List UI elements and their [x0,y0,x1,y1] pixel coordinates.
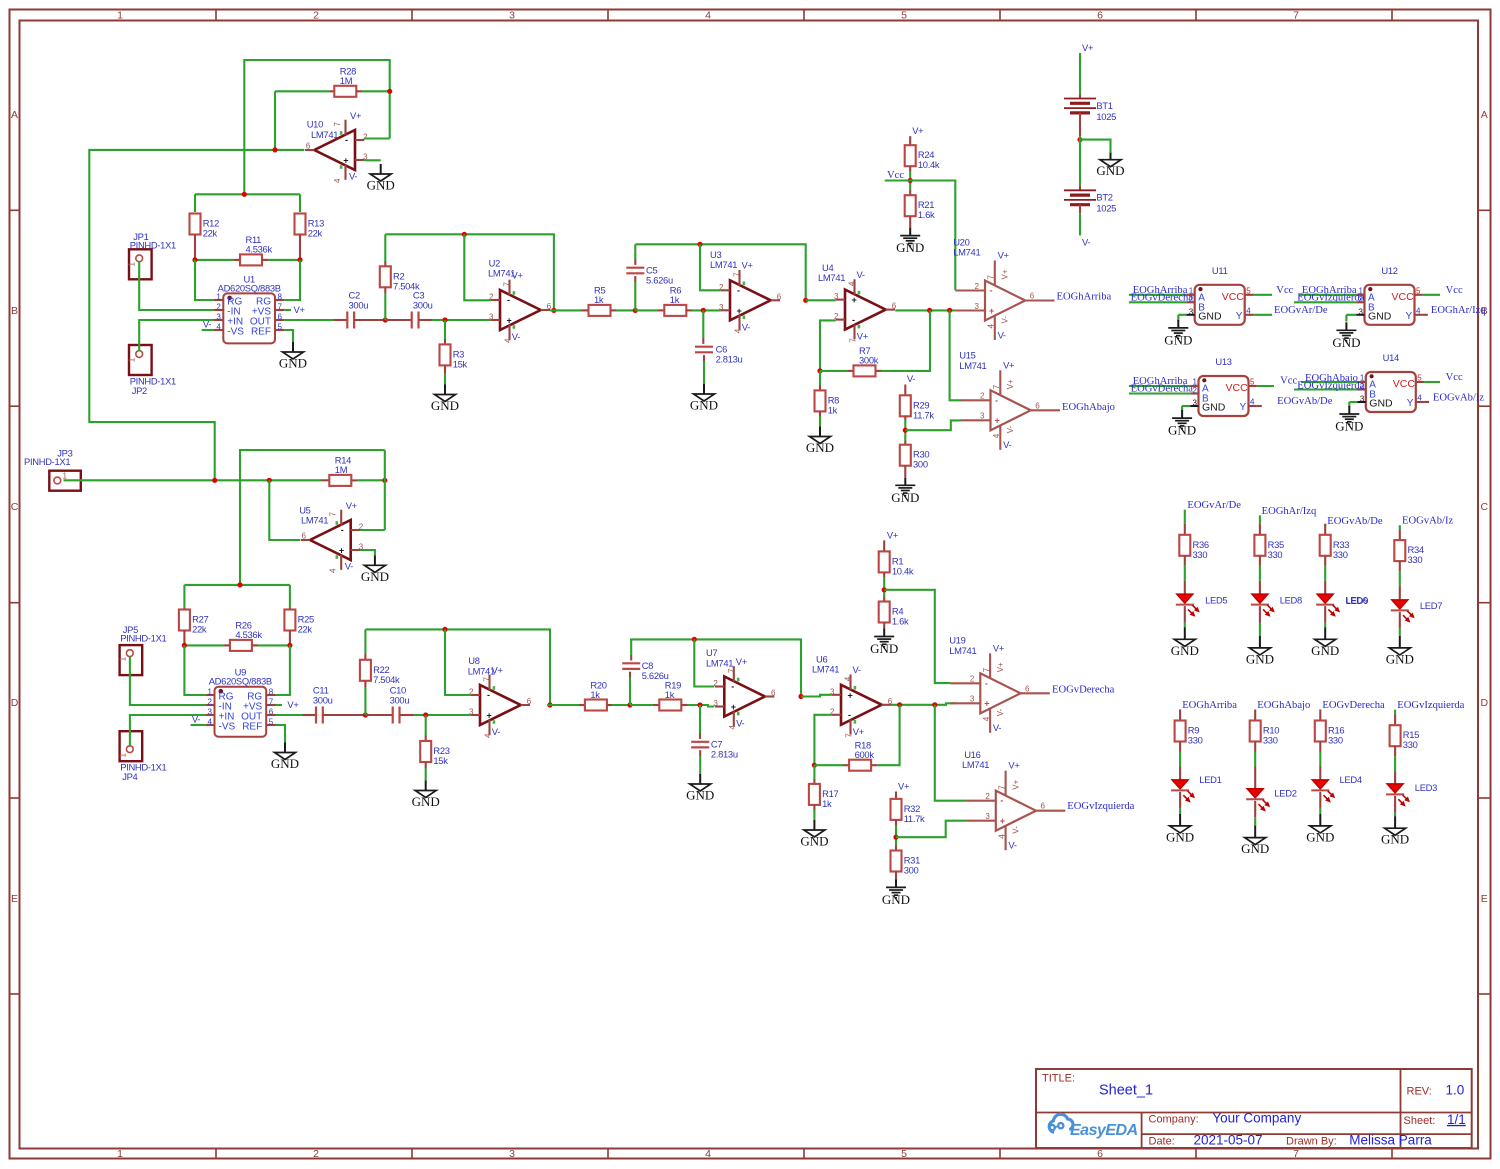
svg-text:4: 4 [844,676,853,681]
svg-text:2: 2 [985,792,990,801]
svg-text:-: - [341,525,344,535]
svg-text:1.6k: 1.6k [892,616,909,627]
svg-text:LM741: LM741 [468,665,495,676]
svg-text:7: 7 [733,272,742,277]
svg-text:2: 2 [713,679,718,688]
svg-text:6: 6 [892,302,897,311]
svg-text:6: 6 [1097,1148,1103,1160]
svg-text:6: 6 [1030,292,1035,301]
svg-text:4.536k: 4.536k [235,629,262,640]
svg-text:E: E [1481,893,1488,905]
svg-text:6: 6 [269,708,274,717]
svg-text:5: 5 [1417,374,1422,383]
svg-text:7: 7 [1293,1148,1299,1160]
svg-text:3: 3 [469,708,474,717]
svg-text:EOGvDerecha: EOGvDerecha [1052,685,1115,696]
svg-text:REF: REF [251,326,271,337]
svg-text:V+: V+ [1001,269,1010,279]
svg-text:-: - [737,286,740,296]
svg-text:Date:: Date: [1149,1135,1175,1147]
svg-text:1: 1 [216,293,221,302]
svg-text:3: 3 [830,687,835,696]
svg-text:AD620SQ/883B: AD620SQ/883B [218,282,281,293]
svg-text:3: 3 [489,313,494,322]
svg-text:BT2: BT2 [1096,192,1112,203]
svg-text:LM741: LM741 [812,664,839,675]
svg-text:1025: 1025 [1096,111,1116,122]
svg-text:3: 3 [980,412,985,421]
svg-text:D: D [1481,697,1489,709]
svg-text:GND: GND [1164,332,1192,347]
svg-text:GND: GND [1386,651,1414,666]
svg-text:5: 5 [1416,286,1421,295]
svg-text:330: 330 [1403,739,1418,750]
svg-text:7: 7 [727,668,736,673]
svg-text:EOGvDerecha: EOGvDerecha [1322,700,1385,711]
svg-text:Y: Y [1236,311,1243,322]
svg-text:330: 330 [1263,735,1278,746]
svg-text:V-: V- [192,714,200,725]
svg-text:C: C [1481,501,1489,513]
svg-text:VCC: VCC [1393,378,1416,390]
svg-text:Y: Y [1407,398,1414,409]
svg-text:+: + [507,316,512,326]
svg-text:U11: U11 [1212,265,1228,276]
svg-text:330: 330 [1408,554,1423,565]
svg-text:6: 6 [302,532,307,541]
svg-text:V-: V- [349,171,357,182]
svg-text:GND: GND [806,440,834,455]
svg-text:1: 1 [128,262,137,267]
svg-text:4: 4 [728,725,737,730]
svg-text:Y: Y [1240,402,1247,413]
svg-text:4: 4 [992,433,1001,438]
svg-text:4: 4 [216,323,221,332]
svg-text:V+: V+ [887,529,899,540]
svg-text:B: B [11,305,18,317]
svg-text:3: 3 [1193,399,1198,408]
svg-text:7: 7 [982,667,991,672]
svg-text:4: 4 [1250,398,1255,407]
svg-text:GND: GND [690,398,718,413]
svg-text:V+: V+ [857,331,869,342]
svg-text:3: 3 [208,708,213,717]
svg-text:7: 7 [333,122,342,127]
svg-text:+: + [343,156,348,166]
svg-text:EOGhAbajo: EOGhAbajo [1257,700,1310,711]
svg-text:5: 5 [1250,378,1255,387]
svg-text:-: - [345,135,348,145]
svg-text:GND: GND [271,756,299,771]
svg-text:1: 1 [208,688,213,697]
svg-text:1: 1 [118,752,127,757]
svg-text:-: - [990,286,993,296]
svg-text:LED1: LED1 [1199,774,1221,785]
svg-text:3: 3 [1189,307,1194,316]
svg-text:V-: V- [996,708,1005,716]
svg-text:V-: V- [998,329,1006,340]
svg-text:-: - [995,395,998,405]
svg-text:GND: GND [1202,402,1226,414]
svg-text:2.813u: 2.813u [711,749,738,760]
svg-text:10.4k: 10.4k [892,565,914,576]
svg-text:GND: GND [1332,335,1360,350]
svg-text:1k: 1k [822,798,832,809]
svg-text:330: 330 [1193,549,1208,560]
svg-text:10.4k: 10.4k [918,159,940,170]
svg-text:5.626u: 5.626u [646,275,673,286]
svg-text:+: + [984,699,989,709]
svg-text:4: 4 [734,328,743,333]
svg-text:2.813u: 2.813u [716,354,743,365]
svg-text:4: 4 [1416,306,1421,315]
svg-text:22k: 22k [298,624,313,635]
svg-text:V+: V+ [898,780,910,791]
svg-text:2: 2 [975,282,980,291]
svg-text:2: 2 [313,1148,319,1160]
svg-text:7.504k: 7.504k [393,280,420,291]
svg-text:22k: 22k [192,624,207,635]
svg-text:1: 1 [117,10,123,22]
svg-text:4: 4 [705,1148,711,1160]
svg-text:GND: GND [1241,841,1269,856]
svg-text:+: + [989,306,994,316]
svg-text:330: 330 [1333,549,1348,560]
svg-text:V+: V+ [912,125,924,136]
svg-text:U13: U13 [1215,356,1231,367]
svg-text:4.536k: 4.536k [246,244,273,255]
svg-text:E: E [11,893,18,905]
svg-text:V-: V- [853,664,861,675]
svg-text:1: 1 [63,472,68,481]
svg-text:2: 2 [970,675,975,684]
svg-text:LED2: LED2 [1274,788,1296,799]
svg-text:1k: 1k [590,689,600,700]
svg-text:7: 7 [987,275,996,280]
svg-text:EOGhAr/Izq: EOGhAr/Izq [1431,305,1486,316]
svg-text:LM741: LM741 [953,247,980,258]
svg-text:4: 4 [705,10,711,22]
svg-text:Your Company: Your Company [1212,1111,1301,1126]
svg-text:PINHD-1X1: PINHD-1X1 [24,456,70,467]
svg-text:GND: GND [1246,651,1274,666]
svg-text:3: 3 [216,313,221,322]
svg-text:300u: 300u [349,300,369,311]
svg-text:EOGhAbajo: EOGhAbajo [1062,402,1115,413]
svg-text:GND: GND [1166,829,1194,844]
svg-text:+: + [1000,816,1005,826]
svg-text:1: 1 [117,1148,123,1160]
svg-text:V+: V+ [294,304,306,315]
svg-text:4: 4 [1246,306,1251,315]
svg-text:BT1: BT1 [1096,100,1112,111]
svg-text:Company:: Company: [1149,1114,1199,1126]
svg-text:Sheet:: Sheet: [1404,1115,1436,1127]
svg-text:V-: V- [1006,425,1015,433]
svg-text:6: 6 [278,313,283,322]
svg-text:GND: GND [882,892,910,907]
svg-text:Y: Y [1406,311,1413,322]
svg-text:GND: GND [891,490,919,505]
svg-text:4: 4 [333,178,342,183]
svg-text:8: 8 [278,293,283,302]
svg-text:EOGhArriba: EOGhArriba [1182,700,1237,711]
svg-text:3: 3 [509,1148,515,1160]
svg-text:600k: 600k [855,749,875,760]
svg-text:VCC: VCC [1226,382,1249,394]
svg-text:22k: 22k [203,228,218,239]
svg-text:1: 1 [128,357,137,362]
svg-text:300k: 300k [859,355,879,366]
svg-text:U12: U12 [1381,265,1397,276]
svg-text:4: 4 [208,718,213,727]
svg-text:V-: V- [1082,237,1090,248]
svg-text:4: 4 [987,324,996,329]
svg-text:V-: V- [203,319,211,330]
svg-text:11.7k: 11.7k [913,409,934,420]
svg-text:7: 7 [329,512,338,517]
svg-text:+: + [731,702,736,712]
svg-text:V+: V+ [346,500,358,511]
svg-text:LM741: LM741 [818,272,845,283]
svg-text:1M: 1M [340,75,353,86]
svg-text:AD620SQ/883B: AD620SQ/883B [209,676,272,687]
svg-text:GND: GND [1171,643,1199,658]
svg-text:4: 4 [1417,394,1422,403]
svg-text:LED9: LED9 [1346,595,1368,606]
svg-text:LM741: LM741 [301,515,328,526]
svg-text:3: 3 [1359,307,1364,316]
svg-text:330: 330 [1268,549,1283,560]
svg-text:GND: GND [279,356,307,371]
svg-text:300u: 300u [390,695,410,706]
svg-text:1k: 1k [594,294,604,305]
svg-text:GND: GND [412,794,440,809]
svg-text:5: 5 [901,10,907,22]
svg-text:V+: V+ [993,642,1005,653]
svg-text:+: + [995,416,1000,426]
svg-text:V+: V+ [287,699,299,710]
svg-text:3: 3 [975,302,980,311]
svg-text:EOGhAr/Izq: EOGhAr/Izq [1262,506,1317,517]
svg-text:7: 7 [992,384,1001,389]
svg-text:EOGvAb/De: EOGvAb/De [1277,396,1333,407]
svg-text:-: - [731,682,734,692]
svg-text:6: 6 [1025,684,1030,693]
svg-text:V-: V- [907,373,915,384]
svg-text:V+: V+ [1006,379,1015,389]
svg-text:LED8: LED8 [1280,595,1302,606]
svg-text:V+: V+ [350,110,362,121]
svg-text:2: 2 [1193,386,1198,395]
svg-text:C: C [11,501,19,513]
svg-text:5: 5 [278,323,283,332]
svg-text:Sheet_1: Sheet_1 [1099,1083,1153,1099]
svg-text:7: 7 [483,677,492,682]
svg-text:LM741: LM741 [949,645,976,656]
svg-text:V-: V- [1003,439,1011,450]
svg-text:2: 2 [359,523,364,532]
svg-text:6: 6 [771,689,776,698]
svg-text:11.7k: 11.7k [904,813,925,824]
svg-text:Vcc: Vcc [1280,376,1297,387]
svg-text:5.626u: 5.626u [642,670,669,681]
svg-text:6: 6 [1041,802,1046,811]
svg-text:-: - [507,295,510,305]
svg-text:V+: V+ [1082,42,1094,53]
svg-text:-: - [985,678,988,688]
svg-text:GND: GND [1335,419,1363,434]
svg-text:LED5: LED5 [1205,595,1227,606]
svg-text:EOGvAr/De: EOGvAr/De [1187,500,1241,511]
svg-text:GND: GND [431,398,459,413]
svg-text:V+: V+ [996,662,1005,672]
svg-text:GND: GND [361,569,389,584]
svg-text:V-: V- [1008,840,1016,851]
svg-text:GND: GND [1381,832,1409,847]
svg-text:JP2: JP2 [132,385,147,396]
svg-text:EasyEDA: EasyEDA [1070,1122,1138,1139]
svg-text:+: + [487,711,492,721]
svg-text:VCC: VCC [1222,291,1245,303]
svg-text:7: 7 [997,785,1006,790]
svg-text:JP4: JP4 [122,771,137,782]
svg-text:4: 4 [997,834,1006,839]
svg-text:-: - [852,315,855,325]
svg-text:LM741: LM741 [710,259,737,270]
svg-text:4: 4 [982,716,991,721]
svg-text:GND: GND [1168,423,1196,438]
svg-text:+: + [737,306,742,316]
svg-text:8: 8 [269,688,274,697]
svg-text:2021-05-07: 2021-05-07 [1194,1132,1263,1147]
svg-text:1M: 1M [335,464,348,475]
svg-text:6: 6 [306,142,311,151]
svg-text:V+: V+ [1011,779,1020,789]
svg-text:6: 6 [1035,401,1040,410]
svg-text:D: D [11,697,19,709]
svg-text:2: 2 [980,392,985,401]
svg-text:7: 7 [1293,10,1299,22]
svg-text:+: + [852,295,857,305]
svg-text:5: 5 [269,718,274,727]
svg-text:U14: U14 [1383,352,1399,363]
svg-text:2: 2 [216,303,221,312]
svg-text:V-: V- [1001,316,1010,324]
svg-text:6: 6 [527,697,532,706]
svg-text:EOGvAb/De: EOGvAb/De [1327,516,1383,527]
svg-text:3: 3 [985,812,990,821]
svg-text:1k: 1k [828,404,838,415]
svg-text:22k: 22k [308,228,323,239]
svg-text:5: 5 [1246,286,1251,295]
svg-text:2: 2 [719,283,724,292]
svg-text:330: 330 [1328,735,1343,746]
svg-text:EOGhArriba: EOGhArriba [1057,292,1112,303]
svg-text:V-: V- [512,331,520,342]
svg-text:V-: V- [993,722,1001,733]
svg-text:+: + [339,546,344,556]
svg-text:300u: 300u [313,695,333,706]
svg-text:U10: U10 [307,119,323,130]
svg-text:1025: 1025 [1096,203,1116,214]
svg-text:LM741: LM741 [962,759,989,770]
svg-text:15k: 15k [453,358,468,369]
svg-text:V-: V- [492,726,500,737]
svg-text:LED7: LED7 [1420,600,1442,611]
svg-text:-: - [848,710,851,720]
svg-text:2: 2 [469,688,474,697]
svg-text:EOGvAr/De: EOGvAr/De [1274,305,1328,316]
svg-text:GND: GND [800,834,828,849]
svg-text:LM741: LM741 [311,129,338,140]
svg-text:V+: V+ [742,260,754,271]
svg-text:7: 7 [849,338,858,343]
svg-text:V-: V- [857,269,865,280]
svg-text:300: 300 [913,459,928,470]
svg-text:LM741: LM741 [488,267,515,278]
svg-text:REF: REF [242,721,262,732]
svg-text:Vcc: Vcc [1446,372,1463,383]
svg-text:V+: V+ [1008,760,1020,771]
svg-text:GND: GND [896,240,924,255]
svg-text:LED3: LED3 [1415,782,1437,793]
svg-text:PINHD-1X1: PINHD-1X1 [130,239,176,250]
svg-text:300u: 300u [413,300,433,311]
svg-text:Vcc: Vcc [887,170,904,181]
svg-text:GND: GND [1311,643,1339,658]
svg-text:GND: GND [1369,398,1393,410]
svg-text:Melissa Parra: Melissa Parra [1349,1132,1432,1147]
svg-text:GND: GND [1306,829,1334,844]
svg-text:3: 3 [970,695,975,704]
svg-text:7: 7 [269,698,274,707]
svg-text:GND: GND [1198,310,1222,322]
svg-text:330: 330 [1188,735,1203,746]
svg-text:V+: V+ [853,726,865,737]
svg-text:3: 3 [834,292,839,301]
svg-text:-: - [1000,796,1003,806]
svg-text:7: 7 [845,733,854,738]
svg-text:GND: GND [686,788,714,803]
svg-text:7: 7 [503,282,512,287]
svg-text:GND: GND [1368,310,1392,322]
svg-text:4: 4 [329,568,338,573]
svg-text:LED4: LED4 [1340,774,1362,785]
svg-text:+: + [848,690,853,700]
svg-text:EOGvAb/Iz: EOGvAb/Iz [1433,392,1484,403]
svg-text:REV:: REV: [1407,1086,1432,1098]
svg-text:GND: GND [870,641,898,656]
svg-text:3: 3 [509,10,515,22]
svg-text:EOGvAb/Iz: EOGvAb/Iz [1402,516,1453,527]
svg-text:4: 4 [848,281,857,286]
svg-text:Vcc: Vcc [1276,285,1293,296]
svg-text:V-: V- [736,718,744,729]
svg-text:TITLE:: TITLE: [1042,1073,1075,1085]
svg-text:6: 6 [777,292,782,301]
svg-text:7.504k: 7.504k [373,674,400,685]
svg-text:PINHD-1X1: PINHD-1X1 [120,633,166,644]
svg-text:V+: V+ [736,656,748,667]
svg-text:3: 3 [1360,395,1365,404]
svg-text:LM741: LM741 [706,657,733,668]
svg-text:15k: 15k [433,755,448,766]
svg-text:V+: V+ [1003,359,1015,370]
svg-text:Vcc: Vcc [1446,285,1463,296]
svg-text:EOGvIzquierda: EOGvIzquierda [1397,700,1464,711]
svg-text:LM741: LM741 [959,360,986,371]
